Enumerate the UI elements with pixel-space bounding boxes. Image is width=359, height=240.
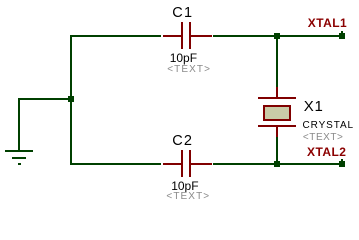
terminal XTAL1 bump bbox=[341, 31, 343, 33]
text placeholder (X1) bbox=[303, 133, 344, 143]
net label XTAL1 bbox=[308, 17, 347, 29]
value 10pF (C2) bbox=[171, 180, 198, 192]
value 10pF (C1) bbox=[170, 52, 197, 64]
ground symbol bar 3 bbox=[18, 163, 21, 165]
wire: ground vertical drop bbox=[18, 98, 20, 150]
capacitor C2 right plate bbox=[189, 150, 191, 177]
text placeholder (C1) bbox=[167, 65, 211, 75]
crystal X1 bottom pin bbox=[276, 127, 278, 137]
capacitor C2 left lead bbox=[163, 163, 181, 165]
terminal XTAL2 bump bbox=[341, 159, 343, 161]
ground symbol bar 2 bbox=[12, 157, 26, 159]
wire: bottom horizontal right segment (C2 to XTAL2 terminal) bbox=[213, 163, 342, 165]
wire: ground branch horizontal bbox=[18, 98, 72, 100]
label C1 bbox=[172, 6, 193, 21]
wire: top horizontal left segment (node to C1) bbox=[70, 35, 161, 37]
ground symbol bar 1 bbox=[5, 150, 33, 152]
net label XTAL2 bbox=[307, 146, 346, 158]
crystal X1 top plate bbox=[258, 97, 296, 99]
capacitor C2 left plate bbox=[181, 150, 183, 177]
capacitor C1 left plate bbox=[181, 22, 183, 49]
label CRYSTAL bbox=[303, 121, 355, 131]
label X1 bbox=[304, 99, 324, 114]
terminal XTAL2 square bbox=[339, 161, 345, 167]
capacitor C1 right lead bbox=[191, 35, 212, 37]
junction: crystal top on top wire bbox=[274, 33, 280, 39]
capacitor C1 right plate bbox=[189, 22, 191, 49]
capacitor C2 right lead bbox=[191, 163, 212, 165]
crystal X1 top pin bbox=[276, 87, 278, 97]
capacitor C1 left lead bbox=[163, 35, 181, 37]
wire: bottom horizontal left segment (node to C2) bbox=[70, 163, 161, 165]
terminal XTAL1 square bbox=[339, 33, 345, 39]
wire: left vertical bus bbox=[70, 35, 72, 165]
wire: top horizontal right segment (C1 to XTAL1 terminal) bbox=[213, 35, 342, 37]
wire: crystal top vertical bbox=[276, 36, 278, 87]
label C2 bbox=[172, 134, 193, 149]
crystal X1 body bbox=[263, 105, 291, 121]
wire: crystal bottom vertical bbox=[276, 137, 278, 165]
text placeholder (C2) bbox=[166, 192, 210, 202]
junction: crystal bottom on bottom wire bbox=[274, 161, 280, 167]
junction: ground branch on left bus bbox=[68, 96, 74, 102]
crystal X1 bottom plate bbox=[258, 125, 296, 127]
